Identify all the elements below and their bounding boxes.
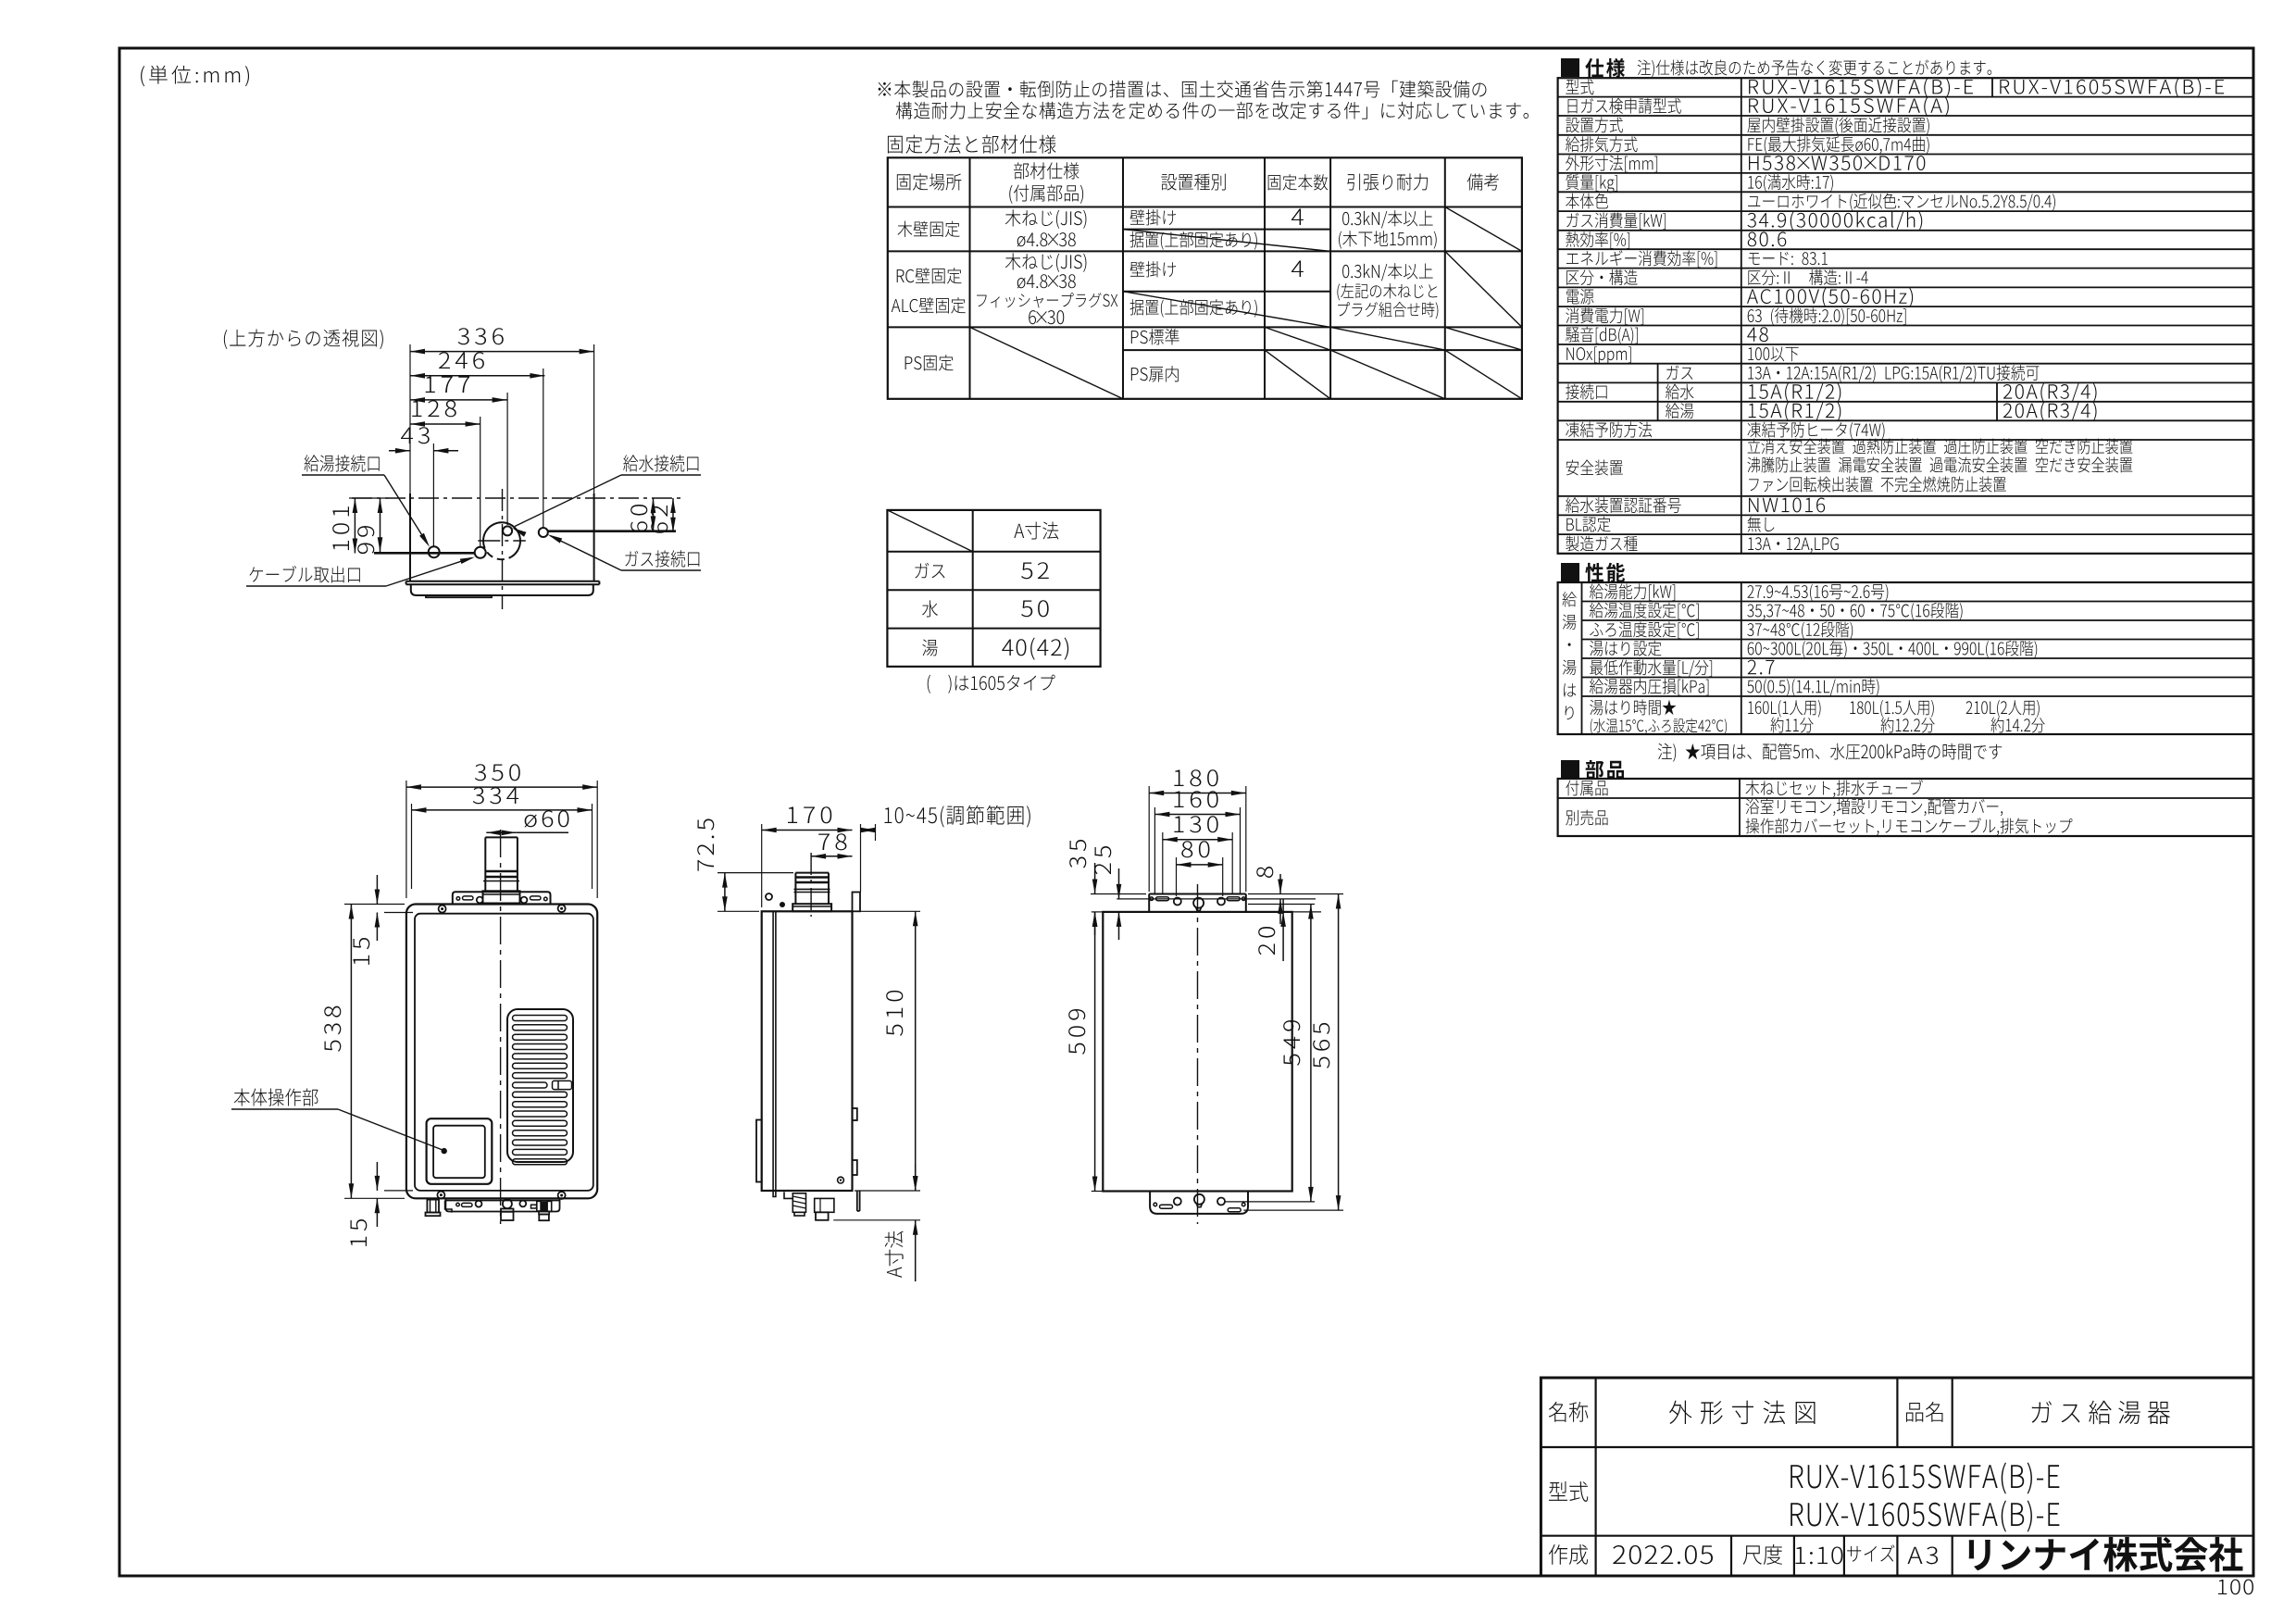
top view unit outline — [409, 493, 411, 581]
title block: drawing name — [1669, 1401, 1816, 1425]
title block: created label — [1549, 1544, 1588, 1565]
back view top bracket — [1148, 894, 1150, 912]
dimension 15 (top) — [376, 875, 378, 905]
side view wall hooks — [853, 1108, 857, 1120]
spec row: safety devices — [1566, 460, 1623, 476]
fixing table row1 (wood wall) — [897, 221, 959, 237]
installation note line 1 — [879, 81, 1487, 98]
spec table model split line — [1991, 78, 1993, 96]
dimension 565 — [1338, 894, 1340, 1211]
operation panel label — [234, 1088, 318, 1106]
dimension 43 — [389, 450, 410, 452]
side view top screw dot — [766, 893, 772, 900]
spec row: energy efficiency — [1566, 250, 1716, 268]
title block: scale label — [1743, 1544, 1782, 1565]
water supply connection circle — [503, 526, 512, 535]
title block: product label — [1906, 1402, 1943, 1422]
dimension A (side) — [915, 1164, 917, 1191]
side view misc bottom bits — [784, 1192, 792, 1198]
title block: name label — [1549, 1402, 1589, 1422]
hot water connection circle — [429, 546, 440, 557]
dimension 128 — [410, 423, 480, 425]
top view flue circle — [483, 522, 520, 556]
dimension 101 (vertical) — [354, 498, 356, 554]
side view flue centerline — [810, 853, 812, 917]
title block: company name — [1969, 1537, 2243, 1572]
dimension 99 (vertical) — [380, 498, 381, 552]
dimension 549 — [1310, 905, 1312, 1202]
front view centerline — [500, 830, 502, 1224]
performance footnote — [1658, 743, 2002, 762]
reference line left connections — [349, 497, 389, 499]
title block: size value — [1907, 1546, 1938, 1564]
spec table pipe size split lines — [1996, 382, 1998, 420]
front view top mounting bracket — [453, 892, 551, 903]
spec row: gas connection — [1666, 365, 1692, 380]
A-dimension header diagonal — [887, 510, 972, 552]
title block: scale value — [1796, 1546, 1843, 1564]
front view vent grille slots — [513, 1016, 568, 1021]
parts row: accessories — [1566, 781, 1607, 796]
title block outer frame — [1541, 1378, 2253, 1576]
installation note line 2 — [896, 102, 1529, 119]
perf row: pressure loss — [1590, 679, 1708, 696]
spec row: body color — [1566, 194, 1608, 209]
cable outlet label — [249, 566, 359, 583]
front view flue pipe — [484, 837, 486, 891]
back view top bracket holes — [1150, 897, 1154, 901]
side view top wall bracket — [853, 893, 861, 912]
back view centerline — [1197, 884, 1199, 1224]
dimension 78 — [811, 856, 852, 857]
spec row: water device cert number — [1566, 497, 1681, 513]
title block: date — [1613, 1545, 1713, 1564]
spec row: noise — [1566, 327, 1638, 344]
side view flue flange — [792, 904, 831, 911]
spec row: air supply/exhaust — [1566, 136, 1637, 152]
top view flue centerline vertical — [502, 489, 504, 609]
A-dimension table caption — [928, 675, 1055, 693]
back view bottom bracket — [1150, 1192, 1248, 1214]
title block: product name — [2032, 1401, 2170, 1425]
parts section title — [1561, 760, 1579, 779]
side view threaded pipe — [792, 1193, 805, 1213]
spec row: JIA application model — [1568, 98, 1681, 114]
dimension 509 — [1094, 912, 1096, 1192]
top view bottom tray — [411, 584, 593, 595]
dimension 336 — [410, 351, 594, 353]
perf row: hot water temp setting — [1590, 603, 1699, 620]
front view bottom screws — [437, 1192, 444, 1199]
water supply connection label — [623, 455, 698, 471]
fixing table grid — [888, 157, 1522, 399]
fixing table header texts — [897, 173, 962, 190]
spec row: hot water connection — [1666, 403, 1693, 418]
dimension 130 — [1163, 839, 1232, 841]
front view top screws — [439, 906, 446, 913]
title block: model label — [1549, 1481, 1588, 1502]
sheet number 100 — [2218, 1580, 2253, 1595]
performance section title — [1561, 563, 1579, 581]
parts table grid — [1558, 779, 2253, 836]
spec row: manufactured gas types — [1566, 536, 1637, 552]
wall line (dash-dot) — [352, 497, 680, 499]
top view title — [224, 329, 383, 349]
top view tray inner step — [426, 595, 492, 597]
front view gas valve — [537, 1201, 541, 1211]
side view front panel seam — [772, 911, 774, 1191]
side view seam foot — [773, 1191, 776, 1197]
dimension 246 — [410, 375, 544, 377]
dimension 170 — [762, 830, 853, 831]
front view water inlet — [503, 1199, 512, 1208]
fixing table sub-row dividers — [1123, 229, 1330, 231]
spec row: NOx — [1566, 346, 1631, 364]
front view vent grille outline — [507, 1009, 573, 1162]
side view body screw — [838, 1177, 844, 1183]
A-dimension table texts — [1014, 521, 1058, 539]
gas connection circle — [539, 528, 548, 537]
dimension 25 — [1118, 868, 1120, 899]
dimension 62 (vertical right) — [672, 498, 674, 532]
title block vertical lines — [1594, 1378, 1596, 1576]
spec row: freeze prevention — [1566, 422, 1652, 438]
spec row: power supply — [1566, 289, 1594, 305]
spec row: power consumption — [1566, 307, 1643, 325]
dimension 177 — [410, 399, 507, 401]
front view bracket holes — [456, 897, 460, 901]
dimension 35 — [1094, 863, 1096, 894]
fixing table title — [888, 135, 1056, 154]
performance group label (vertical) — [1563, 592, 1577, 606]
spec table grid — [1558, 78, 2253, 554]
front view drain pipe — [427, 1200, 439, 1213]
dimension 334 — [412, 809, 593, 811]
top view flue centerline horizontal — [478, 540, 526, 542]
spec row: connections group label — [1566, 384, 1607, 400]
spec row: thermal efficiency — [1566, 231, 1629, 249]
spec section title — [1561, 58, 1579, 77]
title block horizontal lines — [1541, 1446, 2253, 1448]
spec row: class/structure — [1566, 269, 1637, 285]
A-dimension table grid — [887, 510, 1100, 667]
front view inner panel — [415, 914, 593, 1191]
fixing table row2 (RC/ALC wall) — [897, 268, 962, 283]
top view wall mounting plate — [406, 581, 600, 582]
fixing table empty-cell diagonals — [1123, 230, 1330, 252]
dimension 10-45 adjustment range — [860, 824, 862, 893]
spec table connection sub-column — [1657, 364, 1659, 421]
back view bottom bracket holes — [1154, 1203, 1157, 1206]
perf row: filling setting — [1590, 641, 1661, 656]
spec row: installation type — [1566, 117, 1623, 132]
cable outlet circle — [475, 547, 486, 558]
front view operation panel outer — [427, 1118, 493, 1184]
spec row: water inlet connection — [1666, 384, 1693, 400]
spec row: outer dimensions — [1566, 156, 1657, 173]
gas connection label — [625, 550, 699, 567]
dimension 8 — [1279, 874, 1281, 894]
perf row: hot water capacity — [1590, 583, 1675, 601]
dimension 510 — [915, 911, 917, 1191]
spec row: mass — [1566, 174, 1617, 193]
dimension phi60 (flue) — [486, 831, 517, 833]
back view body outline — [1103, 912, 1291, 1192]
side view bottom wall bracket — [856, 1191, 858, 1211]
title block: size label — [1847, 1544, 1894, 1561]
front view bottom bracket holes — [456, 1203, 460, 1206]
dimension 20 — [1282, 899, 1284, 961]
front view drain elbow — [445, 1201, 452, 1213]
front view bottom bracket — [445, 1198, 559, 1200]
front view flue flange — [483, 891, 520, 903]
dimension 350 (front width) — [406, 786, 597, 788]
dimension 60 (vertical right) — [653, 498, 655, 531]
unit note (tanni: mm) — [141, 66, 249, 87]
spec row: gas consumption — [1566, 212, 1666, 230]
front view body outline — [406, 905, 597, 1199]
dimension 180 — [1149, 793, 1246, 794]
dimension 15 (bottom) — [376, 1162, 378, 1191]
side view gas pipe — [815, 1198, 834, 1212]
dimension 538 (height) — [350, 905, 352, 1199]
fixing table row3 (PS) — [905, 355, 954, 370]
spec row: BL certification — [1566, 517, 1610, 532]
perf row: bath temp setting — [1590, 621, 1698, 639]
performance table grid — [1558, 582, 2253, 734]
reference line right connection — [548, 530, 677, 532]
side view operation panel profile — [756, 1120, 762, 1182]
spec row: model — [1566, 80, 1593, 95]
perf row: filling time — [1590, 700, 1676, 716]
title block: model numbers — [1791, 1462, 2059, 1493]
dimension 160 — [1154, 814, 1240, 816]
side view body outline — [762, 911, 853, 1191]
dimension 72.5 — [724, 873, 726, 912]
dimension 80 — [1177, 864, 1223, 866]
parts row: optional items — [1566, 810, 1607, 826]
side view flue pipe — [794, 873, 796, 905]
front view operation panel inner — [433, 1126, 485, 1179]
hot water connection label — [305, 455, 380, 471]
perf row: minimum flow — [1590, 659, 1712, 677]
